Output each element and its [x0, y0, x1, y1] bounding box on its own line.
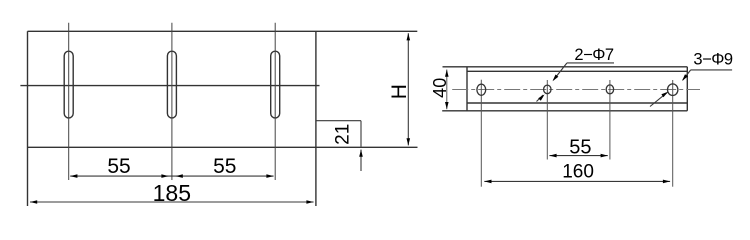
- arrow 55#1 right: [161, 174, 168, 178]
- svg-text:3−Φ9: 3−Φ9: [693, 50, 732, 68]
- leader 2-phi7 lower tail: [537, 95, 544, 102]
- svg-text:185: 185: [153, 180, 191, 206]
- slot 2 centerline: [171, 23, 173, 180]
- dim 21 top extension line: [316, 120, 361, 122]
- bar bottom edge (with 40-dim extension to left): [442, 110, 687, 112]
- arrow 160 right: [663, 180, 670, 184]
- arrow 3-phi9 lower: [661, 92, 668, 98]
- arrow H bottom: [407, 138, 411, 145]
- hole 4 (phi9): [668, 84, 678, 96]
- leader 2-phi7 diagonal: [554, 63, 568, 80]
- bar inner top line: [467, 70, 687, 72]
- arrow 185 left: [30, 200, 37, 204]
- svg-text:160: 160: [562, 162, 594, 183]
- svg-text:H: H: [388, 84, 411, 99]
- arrow 55R left: [549, 154, 556, 158]
- dim H line: [407, 33, 409, 145]
- dim 40 line: [446, 70, 448, 110]
- leader 3-phi9 underline: [691, 69, 732, 71]
- slot 3 centerline: [274, 23, 276, 180]
- leader 3-phi9 lower tail: [650, 93, 667, 107]
- hole 2 centerline: [546, 80, 548, 160]
- arrow 21 up: [359, 150, 363, 157]
- dim 21 vertical line: [360, 121, 362, 147]
- hole 2 (phi7): [544, 85, 551, 94]
- svg-text:55: 55: [213, 155, 236, 178]
- bar top edge (with 40-dim extension to left): [443, 66, 688, 68]
- slot 1: [64, 51, 73, 118]
- dim 185 line: [30, 201, 314, 203]
- arrow 160 left: [484, 180, 491, 184]
- arrow 2-phi7 lower: [538, 94, 544, 100]
- slot 3: [271, 51, 280, 118]
- slot 2: [167, 51, 176, 118]
- arrow leader 3-phi9: [682, 74, 688, 81]
- arrow 55#2 right: [266, 174, 273, 178]
- svg-text:40: 40: [430, 78, 450, 98]
- bar left end edge: [466, 67, 468, 111]
- arrow 40 bottom: [445, 102, 449, 109]
- svg-text:55: 55: [569, 136, 591, 158]
- slot 1 centerline: [68, 23, 70, 180]
- bar horizontal centerline (dash-dot): [452, 89, 700, 91]
- bar inner bottom line: [467, 102, 687, 104]
- dim 21 arrow tail: [360, 150, 362, 171]
- dim 160 line: [484, 180, 670, 182]
- dim 55 left lines: [70, 175, 273, 177]
- svg-text:2−Φ7: 2−Φ7: [574, 46, 613, 64]
- hole 4 centerline: [672, 80, 674, 187]
- arrow 55R right: [601, 154, 608, 158]
- left view: plate top edge (also H-dim top extension): [28, 30, 418, 32]
- hole 1 (phi9): [477, 84, 486, 95]
- arrow leader 2-phi7: [553, 75, 559, 82]
- dim 55 right line: [549, 155, 607, 157]
- leader 2-phi7 underline: [567, 62, 614, 64]
- bar right end edge: [686, 67, 688, 111]
- left view: plate left edge with extension down to 185 dim: [27, 31, 29, 206]
- arrow 185 right: [306, 200, 313, 204]
- svg-text:55: 55: [107, 155, 130, 178]
- arrow 40 top: [445, 70, 449, 77]
- left view: plate bottom edge (also H-dim bottom extension): [28, 146, 418, 148]
- leader 3-phi9 diagonal: [683, 70, 691, 80]
- arrow 55#2 left: [176, 174, 183, 178]
- arrow 55#1 left: [70, 174, 77, 178]
- left view: plate right edge with extension down to 185 dim: [315, 31, 317, 206]
- hole 1 centerline: [480, 80, 482, 187]
- hole 3 centerline: [609, 80, 611, 160]
- hole 3 (phi7): [606, 85, 613, 94]
- arrow H top: [407, 33, 411, 40]
- arrowheads left view: [30, 33, 410, 204]
- svg-text:21: 21: [332, 124, 353, 145]
- arrowheads right view: [445, 70, 688, 184]
- left view: middle edge line: [20, 85, 319, 87]
